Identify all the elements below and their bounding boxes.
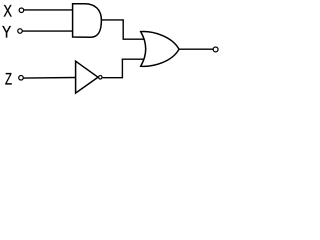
NOT gate bubble	[99, 76, 103, 80]
output terminal	[213, 47, 218, 52]
wire AND-to-OR vertical jog	[122, 20, 124, 39]
NOT gate triangle	[76, 61, 98, 93]
wire NOT output horizontal	[103, 77, 124, 79]
input terminal X	[19, 8, 24, 13]
wire AND output horizontal	[101, 19, 124, 21]
input terminal Y	[18, 29, 23, 34]
wire OR upper input	[123, 38, 145, 40]
wire X to AND input	[24, 9, 73, 11]
wire OR output	[179, 48, 214, 50]
AND gate	[73, 4, 102, 38]
svg-text:Z: Z	[5, 71, 12, 89]
svg-text:Y: Y	[2, 23, 11, 42]
wire NOT-to-OR vertical jog	[121, 59, 123, 78]
OR gate	[141, 32, 179, 67]
svg-text:X: X	[3, 1, 12, 20]
wire OR lower input	[122, 58, 145, 60]
wire Y to AND input	[23, 30, 73, 32]
input terminal Z	[19, 76, 24, 81]
wire Z to NOT input	[24, 77, 76, 80]
